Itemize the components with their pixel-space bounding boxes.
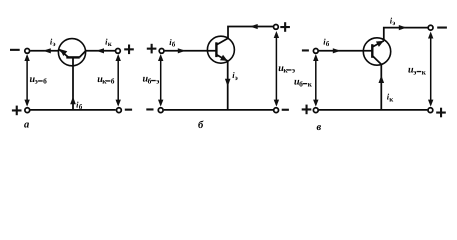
label i_e v [390,15,396,27]
emitter lead b [216,55,227,61]
transistor VT v [363,38,390,65]
terminal bottom-right a [117,108,122,113]
terminal bottom-left v [313,108,318,113]
voltage arrow u_e-k v [428,32,433,107]
bottom wire v [319,109,428,111]
minus sign top-left v [302,49,309,51]
terminal top-left a [25,49,30,54]
terminal top-left b [159,49,164,54]
emitter arrowhead a [60,49,67,56]
base bar b [215,42,217,57]
voltage arrow u_k-e b [274,31,279,107]
terminal bottom-left b [158,108,163,113]
label a [24,120,29,131]
svg-text:к: к [389,95,394,103]
bottom wire b [164,109,273,111]
voltage arrow u_e-b a [24,54,29,107]
label i_b a [76,99,83,111]
terminal top-right v [428,25,433,30]
label i_k v [387,92,395,104]
minus sign bottom-right b [282,109,289,111]
transistor VT b [207,36,234,63]
minus sign bottom-right a [125,109,132,111]
label u_e-b a [30,74,48,86]
collector lead a [80,51,86,57]
svg-text:э: э [292,66,295,75]
minus sign bottom-left b [146,108,153,110]
terminal top-right a [116,49,121,54]
plus sign top-right a [124,45,134,55]
svg-text:э: э [35,77,38,86]
minus sign top-right v [437,27,447,29]
plus sign bottom-left a [12,106,22,116]
svg-text:б: б [172,41,176,49]
svg-text:э: э [156,76,159,85]
current arrow i_e a [43,48,51,53]
current arrow i_e v [399,25,407,30]
terminal bottom-left a [25,108,30,113]
wire base b [165,50,216,52]
voltage arrow u_b-k v [313,54,318,107]
current arrow i_b v [333,48,341,53]
base wire down a [72,58,74,110]
wire collector right a [86,50,116,52]
label u_k-e b [278,63,295,75]
emitter lead a [59,50,68,58]
label i_k a [105,36,113,48]
svg-text:в: в [317,122,322,133]
collector lead down v [372,56,381,65]
svg-text:к: к [108,40,113,48]
label v [317,122,322,133]
label u_b-k v [294,77,313,89]
svg-text:э: э [235,74,238,82]
svg-text:б: б [43,77,47,86]
terminal top-left v [313,49,318,54]
wire base v [319,50,372,52]
voltage arrow u_b-e b [158,54,163,107]
svg-text:а: а [24,120,29,131]
current arrow i_b b [178,48,186,53]
current arrow i_b a [70,97,76,105]
svg-text:э: э [413,67,416,76]
label i_e a [50,36,56,48]
plus sign top-left b [147,44,157,54]
label i_b b [169,37,176,49]
svg-text:э: э [53,40,56,48]
svg-text:к: к [308,79,313,88]
collector wire down v [380,64,382,110]
terminal bottom-right b [274,108,279,113]
terminal bottom-right v [428,108,433,113]
plus sign top-right b [280,22,290,32]
base bar a [66,56,79,58]
base bar v [371,44,373,58]
voltage arrow u_k-b a [116,54,121,107]
plus sign bottom-right v [436,108,446,118]
emitter arrowhead b [220,55,228,61]
bottom wire a [30,109,115,111]
emitter riser v [384,28,428,41]
wire emitter left a [30,50,58,52]
svg-text:к: к [422,67,427,76]
terminal top-right b [274,25,279,30]
emitter arrowhead v [376,41,384,47]
current arrow i_e b [225,79,231,87]
label b [198,120,204,131]
label u_k-b a [97,74,115,86]
svg-text:б: б [299,79,303,88]
emitter wire down b [227,61,229,110]
svg-text:б: б [148,76,152,85]
collector lead b [216,38,228,45]
plus sign bottom-left v [302,105,312,115]
svg-text:б: б [198,120,204,131]
label u_e-k v [408,65,427,77]
svg-text:э: э [392,19,395,27]
current arrow top b [250,24,258,29]
current arrow i_k a [96,48,104,53]
emitter lead up v [372,41,384,47]
transistor VT a [58,39,85,66]
current arrow i_k v [379,75,385,83]
minus sign top-left [10,49,20,51]
label i_b v [323,36,330,48]
label i_e b [232,70,238,82]
svg-text:б: б [326,40,330,48]
svg-text:б: б [111,77,115,86]
label u_b-e b [143,74,160,86]
collector riser b [228,27,273,39]
